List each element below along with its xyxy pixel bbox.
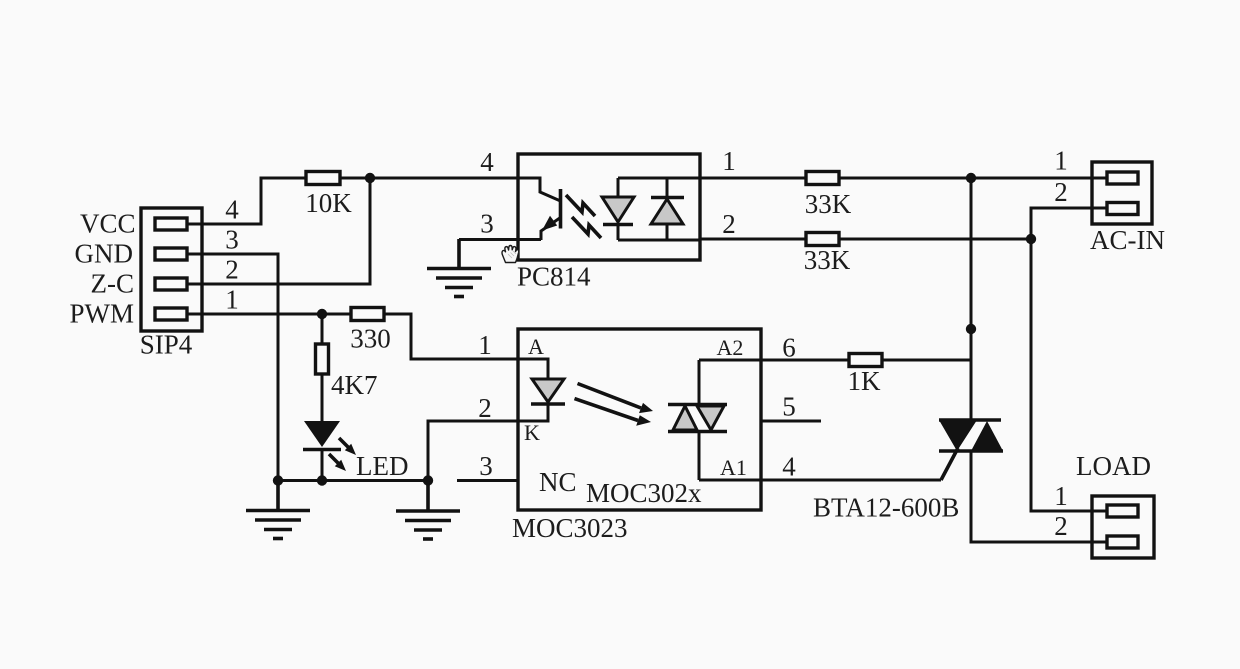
wire PWM node to 4K7 (321, 314, 324, 344)
U2 inner box bottom edge (699, 479, 761, 482)
label VCC (80, 209, 136, 239)
diode D1 LED cathode bar (303, 448, 341, 452)
J2 pin number 1 (1054, 146, 1068, 176)
svg-text:5: 5 (782, 392, 796, 422)
ground symbol G2 (396, 480, 460, 539)
U2 inner box left top lead (698, 360, 701, 404)
U2 LED cathode bar (531, 402, 565, 406)
svg-text:A: A (528, 334, 544, 359)
U1 light arrow 1 (566, 195, 595, 216)
svg-text:3: 3 (480, 209, 494, 239)
label A2 (717, 335, 744, 360)
svg-text:4: 4 (782, 452, 796, 482)
U2 pin number 2 (478, 393, 492, 423)
svg-text:330: 330 (350, 324, 391, 354)
optocoupler U1 PC814 box (518, 154, 700, 260)
U1 pin number 2 (722, 209, 736, 239)
wire PC814 pin3 to ground (459, 238, 541, 241)
connector J2 AC-IN outline (1092, 162, 1152, 224)
svg-text:33K: 33K (804, 245, 851, 275)
U1 phototransistor emitter lead (541, 218, 561, 241)
svg-text:4K7: 4K7 (331, 370, 378, 400)
svg-text:Z-C: Z-C (91, 269, 135, 299)
triac Q1 gate lead (941, 448, 958, 480)
svg-text:A2: A2 (717, 335, 744, 360)
svg-text:SIP4: SIP4 (140, 330, 193, 360)
U2 triac left triangle (673, 406, 697, 430)
label 4K7 (331, 370, 378, 400)
label MOC3023 (512, 513, 628, 543)
label SIP4 (140, 330, 193, 360)
resistor R2 330 body (351, 308, 384, 321)
wire neutral down to LOAD pin1 (1031, 239, 1107, 511)
wire MOC pin6 to 1K (761, 359, 849, 362)
svg-text:4: 4 (225, 194, 239, 224)
label A anode (528, 334, 544, 359)
J3 pin 2 pad (1107, 536, 1138, 548)
U2 inner box top edge (699, 359, 761, 362)
J1 pin 3 pad (155, 248, 187, 260)
label GND (75, 239, 134, 269)
svg-text:MOC302x: MOC302x (586, 478, 702, 508)
svg-text:6: 6 (782, 333, 796, 363)
wire PWM to 330 (187, 313, 351, 316)
J2 pin 1 pad (1107, 172, 1138, 184)
label 330 (350, 324, 391, 354)
U1 pin number 1 (722, 146, 736, 176)
wire LED to rail (321, 449, 324, 480)
label BTA12-600B (813, 493, 959, 523)
label MOC302x (586, 478, 702, 508)
svg-text:1: 1 (1054, 146, 1068, 176)
U1 pin number 3 (480, 209, 494, 239)
triac Q1 bottom bar (939, 449, 1003, 453)
J1 pin 2 pad (155, 278, 187, 290)
ground symbol G1 (246, 480, 310, 539)
J1 pin number 3 (225, 224, 239, 254)
wire MOC pin5 NC stub (761, 420, 821, 423)
svg-text:1: 1 (225, 284, 239, 314)
J3 pin number 2 (1054, 511, 1068, 541)
resistor R3 4K7 body (316, 344, 329, 374)
triac Q1 left triangle (939, 420, 977, 451)
connector J3 LOAD outline (1092, 496, 1154, 558)
label A1 (720, 455, 747, 480)
node dot neutral junction (1026, 234, 1036, 244)
wire PC814 pin2 to 33K lower (700, 238, 806, 241)
U2 LED anode lead (518, 359, 548, 379)
wire triac MT1 to LOAD pin2 (971, 451, 1107, 542)
ground symbol G3 (427, 239, 491, 297)
node dot on AC line drop (966, 324, 976, 334)
svg-text:PC814: PC814 (517, 262, 591, 292)
U2 pin number 5 (782, 392, 796, 422)
U1 light arrow 2 (572, 217, 601, 238)
label PC814 (517, 262, 591, 292)
U1 diode right cathode bar (651, 196, 684, 200)
wire junction up to AC-IN pin2 (1031, 208, 1107, 239)
svg-text:4: 4 (480, 147, 494, 177)
J3 pin 1 pad (1107, 505, 1138, 517)
J3 pin number 1 (1054, 481, 1068, 511)
svg-text:2: 2 (722, 209, 736, 239)
wire Z-C vertical branch (187, 178, 370, 284)
label Z-C (91, 269, 135, 299)
U2 pin number 4 (782, 452, 796, 482)
svg-text:10K: 10K (305, 188, 352, 218)
J1 pin number 4 (225, 194, 239, 224)
label LOAD (1076, 451, 1151, 481)
U2 light arrow 1 (578, 384, 654, 414)
svg-text:2: 2 (1054, 511, 1068, 541)
J1 pin number 2 (225, 254, 239, 284)
node dot rail left (273, 475, 283, 485)
svg-text:1K: 1K (848, 366, 882, 396)
J1 pin 1 pad (155, 308, 187, 320)
svg-text:VCC: VCC (80, 209, 136, 239)
wire 33K to AC-IN pin1 (839, 177, 1107, 180)
svg-text:1: 1 (478, 330, 492, 360)
wire VCC pin4 to 10K (187, 178, 306, 224)
U1 phototransistor base bar (559, 189, 563, 229)
U1 diode right top lead (666, 178, 669, 198)
svg-text:A1: A1 (720, 455, 747, 480)
U2 inner box left bottom lead (698, 432, 701, 480)
wire MOC pin2 to ground rail (428, 421, 518, 480)
optotriac U2 MOC3023 box (518, 329, 761, 510)
label 33K lower (804, 245, 851, 275)
svg-text:PWM: PWM (70, 299, 135, 329)
svg-text:2: 2 (225, 254, 239, 284)
U2 pin number 1 (478, 330, 492, 360)
U1 diode bottom rail (618, 239, 700, 242)
wire 10K to PC814 pin4 (340, 177, 518, 180)
U2 LED triangle (532, 379, 564, 402)
node dot rail right (423, 475, 433, 485)
wire AC line down to triac (970, 178, 973, 420)
U2 pin number 6 (782, 333, 796, 363)
resistor R1 10K body (306, 172, 340, 185)
connector J1 SIP4 outline (141, 208, 202, 331)
J1 pin 4 pad (155, 218, 187, 230)
U2 light arrow 2 (575, 399, 652, 426)
node dot PWM/4K7 junction (317, 309, 327, 319)
wire 330 to MOC pin1 (384, 314, 518, 359)
label 10K (305, 188, 352, 218)
wire MOC pin4 to gate (761, 479, 941, 482)
U1 emitter arrow head (542, 216, 557, 231)
svg-text:2: 2 (478, 393, 492, 423)
U1 diode left triangle (602, 197, 634, 222)
U1 diode right bottom lead (666, 224, 669, 240)
LED emission arrow 2 (329, 454, 346, 471)
svg-text:BTA12-600B: BTA12-600B (813, 493, 959, 523)
triac Q1 right triangle (971, 421, 1003, 451)
wire ground rail bottom (278, 479, 428, 482)
U1 phototransistor collector lead (518, 178, 561, 201)
wire GND pin down (187, 254, 278, 480)
node dot AC line junction (966, 173, 976, 183)
mouse hand cursor (502, 245, 519, 262)
U1 diode left bottom lead (617, 224, 620, 240)
svg-text:1: 1 (1054, 481, 1068, 511)
diode D1 LED triangle (304, 421, 340, 447)
U2 LED cathode lead (518, 404, 548, 421)
svg-text:33K: 33K (805, 189, 852, 219)
svg-text:K: K (524, 420, 540, 445)
triac Q1 top bar (939, 418, 1001, 422)
LED emission arrow 1 (339, 438, 356, 455)
label PWM (70, 299, 135, 329)
U1 diode right triangle (651, 199, 683, 224)
U1 LED A top lead (617, 178, 620, 197)
label 33K upper (805, 189, 852, 219)
label AC-IN (1090, 225, 1165, 255)
label 1K (848, 366, 882, 396)
svg-text:3: 3 (479, 451, 493, 481)
wire 1K to triac MT2 (881, 359, 971, 362)
svg-text:LED: LED (356, 451, 408, 481)
resistor R4 33K body (806, 172, 839, 185)
svg-text:NC: NC (539, 467, 577, 497)
label K cathode (524, 420, 540, 445)
resistor R6 1K body (849, 354, 882, 367)
U1 diode left cathode bar (603, 223, 633, 227)
svg-text:2: 2 (1054, 177, 1068, 207)
J1 pin number 1 (225, 284, 239, 314)
wire PC814 pin1 to 33K (700, 177, 806, 180)
label NC (539, 467, 577, 497)
wire 33K lower to junction (839, 238, 1031, 241)
svg-text:LOAD: LOAD (1076, 451, 1151, 481)
svg-text:AC-IN: AC-IN (1090, 225, 1165, 255)
node dot rail LED (317, 475, 327, 485)
J2 pin number 2 (1054, 177, 1068, 207)
U1 pin number 4 (480, 147, 494, 177)
U2 pin number 3 (479, 451, 493, 481)
svg-text:MOC3023: MOC3023 (512, 513, 628, 543)
U1 diode top rail (618, 177, 700, 180)
U2 triac right triangle (697, 406, 724, 430)
svg-text:GND: GND (75, 239, 134, 269)
svg-text:1: 1 (722, 146, 736, 176)
U2 triac top bar (668, 403, 727, 407)
resistor R5 33K lower body (806, 233, 839, 246)
U2 triac bottom bar (668, 430, 727, 434)
J2 pin 2 pad (1107, 203, 1138, 215)
wire MOC pin3 NC stub (457, 479, 518, 482)
node dot VCC/Z-C junction (365, 173, 375, 183)
label LED (356, 451, 408, 481)
svg-text:3: 3 (225, 224, 239, 254)
wire 4K7 to LED (321, 374, 324, 421)
